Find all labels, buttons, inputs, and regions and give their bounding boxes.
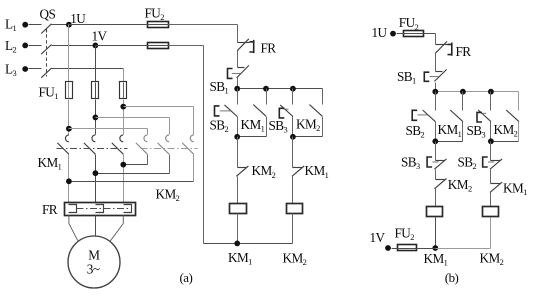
- wire to SB3 NC (b): [435, 142, 437, 161]
- svg-text:1V: 1V: [92, 29, 108, 44]
- contact KM2 NC interlock (b): [434, 179, 446, 189]
- label FR (b): [456, 44, 472, 59]
- fuse FU1 phase U: [66, 82, 73, 99]
- junction bottom (b): [432, 245, 438, 251]
- wire to SB2 NC (b): [490, 142, 492, 161]
- fuse FU1 phase W: [120, 82, 127, 99]
- label SB3 (b): [467, 123, 486, 140]
- wire L2 to QS: [29, 45, 42, 47]
- button SB3 NO (a): [279, 105, 293, 118]
- contactor KM2 label (main): [156, 186, 180, 203]
- button SB3 NC (b): [427, 157, 446, 169]
- bottom wire to coil KM2 (b): [436, 218, 491, 249]
- label KM1 NC (a): [305, 163, 329, 180]
- node line top (a): [238, 89, 323, 105]
- contact KM1 NC interlock (b): [490, 182, 502, 192]
- KM2 linkage (dash-dot): [141, 148, 198, 150]
- FR linkage (dash-dot): [77, 208, 131, 210]
- button SB2 NO (a): [215, 105, 238, 117]
- label KM1 NO (b): [438, 122, 462, 139]
- fuse FU2 upper (1U line): [147, 22, 169, 28]
- wire coil KM1 to bottom (b): [435, 218, 437, 249]
- FR heater element U: [69, 205, 77, 213]
- wire FR to motor U: [69, 215, 78, 240]
- wire KM1 out (b): [462, 122, 464, 142]
- node L3 terminal: [5, 61, 28, 78]
- thermal contact FR (b): [435, 41, 452, 55]
- wire FR to SB1 (b): [435, 54, 437, 72]
- wire SB1 to node (a): [237, 78, 239, 89]
- node line top (b): [436, 92, 519, 111]
- junction node-SB3 (a): [290, 86, 296, 92]
- KM1 linkage (dash-dot): [57, 148, 128, 150]
- wire column W drop to FU1: [123, 69, 125, 82]
- wire to KM1 interlock (a): [292, 137, 294, 168]
- wire W to KM2 branch3: [124, 107, 194, 135]
- junction node-SB2 (b): [432, 89, 438, 95]
- wire KM2 out3 to U: [69, 155, 194, 182]
- contactor KM1 main contact 1: [57, 135, 69, 154]
- coil KM1 (b): [427, 207, 443, 217]
- wire coil KM1 to rail (a): [237, 214, 239, 244]
- label FR (a): [261, 41, 277, 56]
- svg-text:3~: 3~: [87, 261, 100, 276]
- figure label (a): [180, 270, 193, 285]
- wire KM2 out (b): [518, 122, 520, 142]
- node 1V (b): [370, 230, 391, 251]
- svg-text:FR: FR: [261, 41, 277, 56]
- wire L2 QS to 1V: [52, 45, 96, 47]
- junction KM2-out1 / W column: [120, 162, 126, 168]
- label KM2 NO (a): [296, 117, 320, 134]
- figure label (b): [445, 270, 459, 285]
- thermal relay FR label (main): [42, 202, 58, 217]
- wire FR to SB1 (a): [237, 51, 239, 68]
- wire FU1-U output: [68, 100, 70, 135]
- wire coil KM2 to rail (a): [292, 214, 294, 244]
- svg-text:(b): (b): [445, 270, 459, 285]
- node line KM1 latch (b): [436, 141, 463, 143]
- wire KM2 out (a): [322, 117, 324, 137]
- contactor KM1 label (main): [38, 155, 62, 172]
- bottom rail (a): [204, 243, 293, 245]
- svg-text:FR: FR: [456, 44, 472, 59]
- contact KM1 NO aux (a): [253, 105, 266, 117]
- stub SB3 (a): [292, 89, 294, 105]
- contactor KM2 main contact 2: [158, 135, 170, 154]
- node L2 terminal: [5, 38, 28, 55]
- svg-text:1U: 1U: [372, 25, 388, 40]
- wire FU2 to control left rail (a): [169, 45, 204, 47]
- stub KM1 (a): [266, 89, 268, 105]
- fuse FU2 label (a): [145, 5, 165, 22]
- wire U to KM2 branch1: [69, 129, 148, 135]
- wire V to KM2 branch2: [96, 118, 170, 135]
- wire KM1 NC to coil (b): [490, 193, 492, 207]
- fuse FU2 label bottom (b): [395, 226, 415, 243]
- switch QS label: [40, 7, 56, 22]
- switch QS pole 2 blade: [41, 45, 51, 55]
- label KM2 NC (b): [448, 177, 472, 194]
- wire L1 QS to 1U: [52, 24, 69, 26]
- node L1 terminal: [5, 17, 28, 34]
- coil KM2 (a): [287, 204, 303, 214]
- label coil KM2 (b): [480, 250, 504, 267]
- wire FU1-V output: [95, 100, 97, 135]
- stub SB2 (a): [237, 89, 239, 105]
- wire L1 to QS: [29, 24, 42, 26]
- svg-text:(a): (a): [180, 270, 193, 285]
- junction latch right (b): [488, 138, 494, 144]
- node line KM1 latch (a): [238, 136, 267, 138]
- wire FR to motor W: [110, 215, 123, 241]
- junction node-SB3 (b): [488, 89, 494, 95]
- wire SB3 out (a): [292, 117, 294, 137]
- button SB2 NC (b): [483, 157, 502, 169]
- label KM2 NO (b): [494, 122, 518, 139]
- switch QS pole 3 blade: [41, 68, 51, 78]
- label coil KM2 (a): [283, 250, 307, 267]
- label SB2 (b): [406, 123, 425, 140]
- contactor KM2 main contact 3: [182, 135, 194, 154]
- wire L3 QS to column W: [52, 68, 124, 70]
- wire SB1 to node (b): [435, 83, 437, 92]
- switch QS linkage (dashed): [46, 29, 48, 77]
- wire KM2 NC to coil (b): [435, 189, 437, 207]
- junction below FU1-V: [93, 115, 99, 121]
- wire interlock to coil KM1 (a): [237, 177, 239, 204]
- wire KM2 out1 to W: [124, 155, 148, 165]
- contact KM2 NO aux (a): [310, 105, 323, 117]
- label KM1 NO (a): [241, 117, 265, 134]
- contactor KM2 main contact 1: [136, 135, 148, 154]
- wire 1U to FU2a: [69, 24, 147, 26]
- bottom wire to FU2 (b): [418, 248, 436, 250]
- stub SB3 (b): [490, 92, 492, 111]
- junction KM2-out2 / V column: [93, 170, 99, 176]
- label KM1 NC (b): [503, 180, 527, 197]
- label SB2 NC (b): [458, 155, 477, 172]
- fuse FU2 lower (1V line): [147, 43, 169, 49]
- button SB3 NO (b): [477, 110, 491, 122]
- wire KM1 out (a): [266, 117, 268, 137]
- label coil KM1 (a): [228, 250, 252, 267]
- svg-text:M: M: [88, 248, 100, 263]
- stub SB2 (b): [435, 92, 437, 111]
- label SB2 (a): [210, 117, 229, 134]
- wire to KM2 interlock (a): [237, 137, 239, 168]
- wire SB3 to KM2 NC (b): [435, 170, 437, 180]
- coil KM2 (b): [483, 207, 499, 217]
- contact KM2 NC interlock (a): [236, 166, 248, 176]
- junction below FU1-U: [66, 126, 72, 132]
- fuse FU2 label top (b): [399, 15, 419, 32]
- wire FU2 to FR (b): [425, 34, 436, 45]
- thermal relay FR box: [65, 203, 136, 216]
- svg-text:1V: 1V: [370, 230, 386, 245]
- wire column V drop to FU1: [95, 46, 97, 82]
- wire SB2 out (b): [435, 122, 437, 142]
- label SB3 NC (b): [401, 155, 420, 172]
- control rail left (a): [203, 46, 205, 244]
- wire 1V to FU2b: [96, 45, 147, 47]
- label SB3 (a): [269, 118, 288, 135]
- svg-text:1U: 1U: [70, 11, 86, 26]
- wire FU1-W output: [123, 100, 125, 135]
- node line KM2 latch (a): [293, 136, 323, 138]
- button SB1 NC (a): [228, 65, 249, 78]
- contact KM2 NO aux (b): [506, 110, 519, 122]
- junction below FU1-W: [120, 104, 126, 110]
- wire 1U to FU2 (b): [397, 33, 404, 35]
- wire interlock to coil KM2 (a): [292, 177, 294, 204]
- contactor KM1 main contact 2: [84, 135, 96, 154]
- wire FU2 to control branch (a): [169, 24, 238, 26]
- wire SB2 to KM1 NC (b): [490, 170, 492, 184]
- junction node-SB2 (a): [234, 86, 240, 92]
- thermal contact FR (a): [237, 39, 254, 53]
- contactor KM1 main contact 3: [112, 135, 124, 154]
- fuse FU1 phase V: [92, 82, 99, 99]
- FR heater element V: [96, 205, 104, 213]
- junction bottom rail (a): [234, 241, 240, 247]
- junction node-KM1 (b): [460, 89, 466, 95]
- label KM2 NC (a): [252, 163, 276, 180]
- wire KM2 out2 to V: [96, 155, 170, 174]
- junction latch right (a): [290, 134, 296, 140]
- wire L3 to QS: [29, 68, 42, 70]
- wire column U drop to FU1: [68, 25, 70, 82]
- contact KM1 NC interlock (a): [292, 166, 304, 176]
- node 1U: [66, 11, 86, 28]
- button SB2 NO (b): [412, 110, 435, 122]
- fuse FU2 top (b): [403, 31, 425, 37]
- wire KM1 outputs down: [69, 155, 124, 203]
- wire SB2 out (a): [237, 117, 239, 137]
- wire control feed down (a): [237, 25, 239, 43]
- stub KM1 (b): [462, 92, 464, 111]
- junction latch left (b): [432, 138, 438, 144]
- node line KM2 latch (b): [491, 141, 519, 143]
- wire FR to motor V: [95, 216, 97, 237]
- coil KM1 (a): [230, 204, 247, 214]
- svg-text:QS: QS: [40, 7, 56, 22]
- fuse FU1 label: [39, 84, 59, 101]
- node 1U (b): [372, 25, 396, 40]
- junction KM2-out3 / U column: [66, 178, 72, 184]
- label SB1 (a): [210, 79, 229, 96]
- fuse FU2 bottom (b): [398, 245, 418, 251]
- FR heater element W: [124, 205, 132, 213]
- wire FU2 to 1V (b): [392, 248, 398, 250]
- label SB1 (b): [397, 69, 416, 86]
- junction latch left (a): [234, 134, 240, 140]
- junction node-KM1 (a): [263, 86, 269, 92]
- motor M 3~: [68, 236, 120, 288]
- node 1V: [92, 29, 108, 49]
- contact KM1 NO aux (b): [450, 110, 463, 122]
- button SB1 NC (b): [424, 69, 446, 81]
- label coil KM1 (b): [424, 251, 448, 268]
- svg-text:FR: FR: [42, 202, 58, 217]
- switch QS pole 1 blade: [41, 24, 51, 34]
- wire SB3 out (b): [490, 122, 492, 142]
